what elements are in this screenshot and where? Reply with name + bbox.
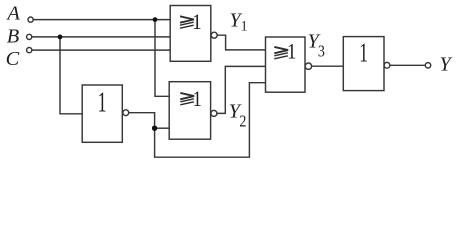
- junction dot on inverter output branch: [152, 126, 157, 131]
- wire Y3 from G3 to G5: [312, 65, 344, 67]
- inverter G4 body: [82, 85, 122, 142]
- or-gate G3 body: [266, 37, 306, 92]
- svg-text:B: B: [7, 26, 19, 48]
- wire Y1 from G1 to node, bends down: [217, 35, 265, 50]
- svg-text:A: A: [5, 2, 20, 24]
- inverter G5 body: [343, 37, 384, 91]
- wire stub junction to G2 input 2: [155, 127, 170, 129]
- svg-text:1: 1: [241, 18, 248, 35]
- svg-text:1: 1: [359, 38, 368, 68]
- wire output Y: [390, 64, 425, 66]
- wire A horizontal: [33, 19, 170, 21]
- or-gate G1 output bubble: [211, 32, 217, 38]
- input terminal B: [27, 34, 32, 39]
- gate G2 label >=1: [180, 93, 194, 105]
- svg-text:1: 1: [287, 40, 296, 64]
- wire C horizontal: [32, 49, 170, 51]
- inverter G4 output bubble: [123, 110, 129, 116]
- gate G1 label >=1: [180, 16, 194, 28]
- svg-text:1: 1: [192, 10, 201, 34]
- svg-text:C: C: [6, 48, 20, 70]
- or-gate G3 output bubble: [305, 63, 311, 69]
- inverter G5 output bubble: [384, 62, 390, 68]
- or-gate G2 output bubble: [211, 110, 217, 116]
- svg-text:2: 2: [239, 112, 246, 130]
- junction dot on wire B: [58, 35, 63, 40]
- gate G3 label >=1: [274, 47, 288, 59]
- junction dot on wire A: [153, 17, 158, 22]
- svg-text:3: 3: [318, 42, 325, 60]
- svg-text:1: 1: [98, 88, 107, 119]
- input terminal C: [27, 48, 32, 53]
- or-gate G2 body: [169, 82, 210, 140]
- wire A branch vertical to gate G2 input 1: [155, 20, 169, 97]
- svg-text:1: 1: [193, 88, 202, 112]
- svg-text:Y: Y: [440, 53, 453, 75]
- wire B branch vertical to inverter G4 input: [60, 37, 82, 114]
- wire B horizontal: [32, 36, 170, 38]
- wire from G4 output down to junction and gate G2 input 2: [129, 83, 266, 158]
- output terminal Y: [425, 63, 430, 68]
- wire Y2 from G2 up to gate G3 input 2: [217, 66, 266, 113]
- input terminal A: [28, 17, 33, 22]
- or-gate G1 body: [170, 6, 211, 62]
